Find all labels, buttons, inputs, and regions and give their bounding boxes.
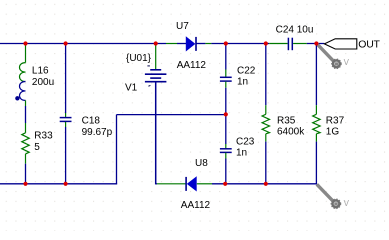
- svg-text:AA112: AA112: [177, 60, 207, 71]
- wire bottom from V1 corner: [156, 183, 157, 185]
- output tag OUT: [324, 39, 356, 49]
- svg-text:R35: R35: [277, 115, 296, 126]
- svg-text:99.67p: 99.67p: [82, 127, 113, 138]
- svg-text:5: 5: [34, 142, 40, 153]
- diode U7: [186, 37, 196, 51]
- svg-text:V1: V1: [125, 83, 138, 94]
- capacitor C24: [288, 38, 292, 51]
- voltage probe top: [317, 44, 341, 68]
- wire C18 top lead: [65, 44, 67, 118]
- svg-text:R33: R33: [34, 131, 53, 142]
- svg-text:V: V: [344, 199, 350, 208]
- node junction bottom R35: [264, 182, 268, 186]
- wire C24 left lead: [269, 43, 287, 45]
- wire top rail into U7: [177, 43, 186, 45]
- node junction top C18: [64, 41, 68, 45]
- svg-text:1G: 1G: [326, 127, 340, 138]
- wire C18 bottom lead: [65, 122, 67, 184]
- wire U7 anode lead: [166, 43, 177, 45]
- wire R37 bottom lead: [315, 134, 317, 185]
- node junction top L16: [23, 41, 27, 45]
- node junction bottom C18: [64, 182, 68, 186]
- svg-text:200u: 200u: [32, 77, 54, 88]
- svg-text:U8: U8: [195, 158, 208, 169]
- wire riser x116.5: [116, 115, 118, 185]
- node junction OUT: [314, 41, 318, 45]
- node junction top R35: [264, 41, 268, 45]
- node junction mid C22 C23: [224, 112, 228, 116]
- wire C22 bottom lead: [225, 82, 227, 115]
- resistor R35: [262, 114, 269, 134]
- svg-text:1n: 1n: [236, 148, 247, 159]
- svg-text:V: V: [344, 58, 350, 67]
- wire L16 to R33: [25, 100, 27, 132]
- svg-text:R37: R37: [326, 115, 345, 126]
- node junction bottom C23: [223, 182, 227, 186]
- node junction top V1: [154, 41, 158, 45]
- wire C23 top lead: [225, 115, 227, 149]
- wire top rail left: [0, 43, 166, 45]
- capacitor C18: [60, 118, 72, 122]
- L16 phase dot: [15, 96, 19, 100]
- capacitor C22: [220, 77, 232, 81]
- resistor R33: [22, 133, 29, 154]
- capacitor C23: [220, 149, 232, 153]
- inductor L16: [20, 63, 26, 101]
- wire U8 anode lead: [197, 183, 212, 185]
- svg-text:C23: C23: [236, 136, 255, 147]
- wire bottom rail right: [212, 183, 316, 185]
- wire V1 bottom lead: [155, 82, 157, 184]
- svg-text:AA112: AA112: [181, 200, 211, 211]
- svg-text:C18: C18: [82, 116, 101, 127]
- resistor R37: [313, 114, 320, 134]
- diode U8: [186, 177, 196, 191]
- wire R35 top lead: [265, 44, 267, 115]
- wire R37 top lead: [315, 44, 317, 115]
- node junction top C22: [224, 41, 228, 45]
- svg-text:OUT: OUT: [358, 39, 380, 51]
- wire C24 right lead: [293, 43, 307, 45]
- svg-text:U7: U7: [176, 21, 189, 32]
- svg-text:C24 10u: C24 10u: [276, 25, 314, 36]
- wire R35 bottom lead: [265, 134, 267, 184]
- node junction bottom R33: [23, 182, 27, 186]
- svg-text:C22: C22: [237, 65, 256, 76]
- svg-text:1n: 1n: [237, 77, 248, 88]
- svg-text:L16: L16: [32, 66, 49, 77]
- svg-text:{U01}: {U01}: [126, 53, 152, 64]
- wire top rail right: [307, 43, 325, 45]
- voltage probe bottom: [317, 184, 341, 208]
- wire top rail mid: [211, 43, 269, 45]
- inductor L16 lead top: [25, 44, 27, 63]
- wire U8 cathode lead: [157, 183, 186, 185]
- wire U7 cathode lead: [205, 43, 211, 45]
- battery V1: [145, 66, 167, 86]
- svg-text:6400k: 6400k: [277, 127, 305, 138]
- wire bottom rail left: [0, 183, 117, 185]
- wire R33 bottom lead: [25, 154, 27, 184]
- wire C22 top lead: [225, 44, 227, 78]
- wire C23 bottom lead: [225, 153, 227, 184]
- wire mid horizontal to C22/C23 node: [117, 114, 226, 116]
- wire V1 top lead: [155, 44, 157, 70]
- wire from U7 cathode: [197, 43, 206, 45]
